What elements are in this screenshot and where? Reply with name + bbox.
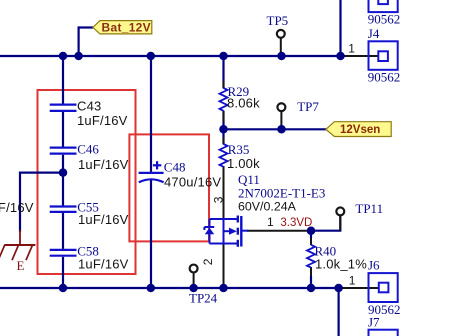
svg-text:Bat_12V: Bat_12V xyxy=(102,21,151,35)
svg-text:1.0k_1%: 1.0k_1% xyxy=(315,257,367,272)
svg-text:E: E xyxy=(17,258,25,273)
svg-text:uF/16V: uF/16V xyxy=(0,200,34,215)
svg-text:470u/16V: 470u/16V xyxy=(164,175,221,190)
svg-text:3.3VD: 3.3VD xyxy=(280,217,312,229)
svg-text:90562: 90562 xyxy=(368,69,401,84)
svg-text:J4: J4 xyxy=(368,26,380,41)
svg-text:60V/0.24A: 60V/0.24A xyxy=(238,200,297,214)
svg-text:TP7: TP7 xyxy=(297,99,319,114)
svg-text:C48: C48 xyxy=(164,160,186,175)
svg-text:2N7002E-T1-E3: 2N7002E-T1-E3 xyxy=(238,185,325,200)
svg-text:1.00k: 1.00k xyxy=(227,156,260,171)
svg-text:90562: 90562 xyxy=(368,12,401,27)
svg-text:1: 1 xyxy=(349,274,356,288)
svg-text:TP5: TP5 xyxy=(267,13,289,28)
svg-text:1: 1 xyxy=(348,41,355,55)
svg-text:1uF/16V: 1uF/16V xyxy=(78,157,129,172)
svg-text:2: 2 xyxy=(201,258,215,265)
svg-text:C43: C43 xyxy=(77,99,101,114)
svg-text:R35: R35 xyxy=(228,142,250,157)
svg-text:C46: C46 xyxy=(77,142,99,157)
svg-text:1uF/16V: 1uF/16V xyxy=(78,212,129,227)
svg-text:1: 1 xyxy=(267,215,274,229)
svg-text:J6: J6 xyxy=(368,257,380,272)
svg-text:12Vsen: 12Vsen xyxy=(340,124,380,136)
svg-text:TP24: TP24 xyxy=(189,290,218,305)
svg-text:J7: J7 xyxy=(368,314,380,329)
svg-text:1uF/16V: 1uF/16V xyxy=(77,113,128,128)
svg-text:8.06k: 8.06k xyxy=(227,96,260,111)
svg-text:3: 3 xyxy=(212,196,226,203)
svg-text:1uF/16V: 1uF/16V xyxy=(78,256,129,271)
svg-text:TP11: TP11 xyxy=(355,201,383,216)
